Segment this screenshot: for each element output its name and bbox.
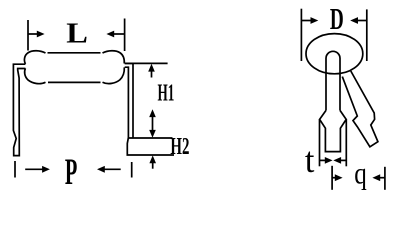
- dimension P: right tick: [131, 162, 133, 178]
- left lead (bent down): [13, 64, 25, 155]
- H1 top arrow (points up): [148, 64, 155, 78]
- dimension P: left arrow: [25, 166, 50, 173]
- dimension P: left tick: [14, 161, 16, 178]
- svg-text:t: t: [305, 140, 315, 180]
- H1/H2 double arrow: [149, 109, 156, 137]
- dimension P: right arrow: [97, 166, 121, 173]
- dimension L: left arrow: [28, 31, 45, 38]
- H2 bottom arrow (points up to foot bottom): [149, 155, 156, 168]
- body of axial component: top edge: [48, 52, 101, 54]
- body: bottom edge: [48, 81, 101, 83]
- body: right crimped end cap: [103, 51, 125, 64]
- dimension q: left extension line: [331, 166, 333, 190]
- dimension D: right arrow: [350, 17, 367, 24]
- svg-text:q: q: [354, 157, 367, 191]
- dimension D: left extension line: [300, 9, 302, 61]
- svg-text:P: P: [65, 152, 77, 193]
- svg-text:H1: H1: [158, 80, 175, 106]
- right lead (bent down with foot): [125, 63, 133, 138]
- dimension L: right arrow: [106, 31, 124, 38]
- dimension L: left extension line: [27, 20, 29, 51]
- dimension D: right extension line: [366, 9, 368, 61]
- dimension q: left arrow: [332, 174, 343, 181]
- H1 extension line at lead top: [125, 62, 168, 64]
- dimension q: right arrow: [372, 174, 385, 181]
- t extension lines: [319, 119, 321, 166]
- dimension t arrows (point inward, tips meet): [320, 157, 347, 164]
- diagonal lead with crimp: [342, 71, 378, 147]
- dimension L: right extension line: [124, 19, 126, 52]
- svg-text:L: L: [66, 17, 88, 49]
- dimension D: left arrow: [301, 17, 318, 24]
- svg-text:D: D: [330, 1, 344, 36]
- svg-text:H2: H2: [170, 134, 189, 160]
- center lead with crimp: [326, 51, 340, 110]
- disc body (ellipse): [306, 34, 363, 74]
- dimension q: right extension line: [384, 167, 386, 190]
- body: left crimped end cap: [24, 51, 45, 64]
